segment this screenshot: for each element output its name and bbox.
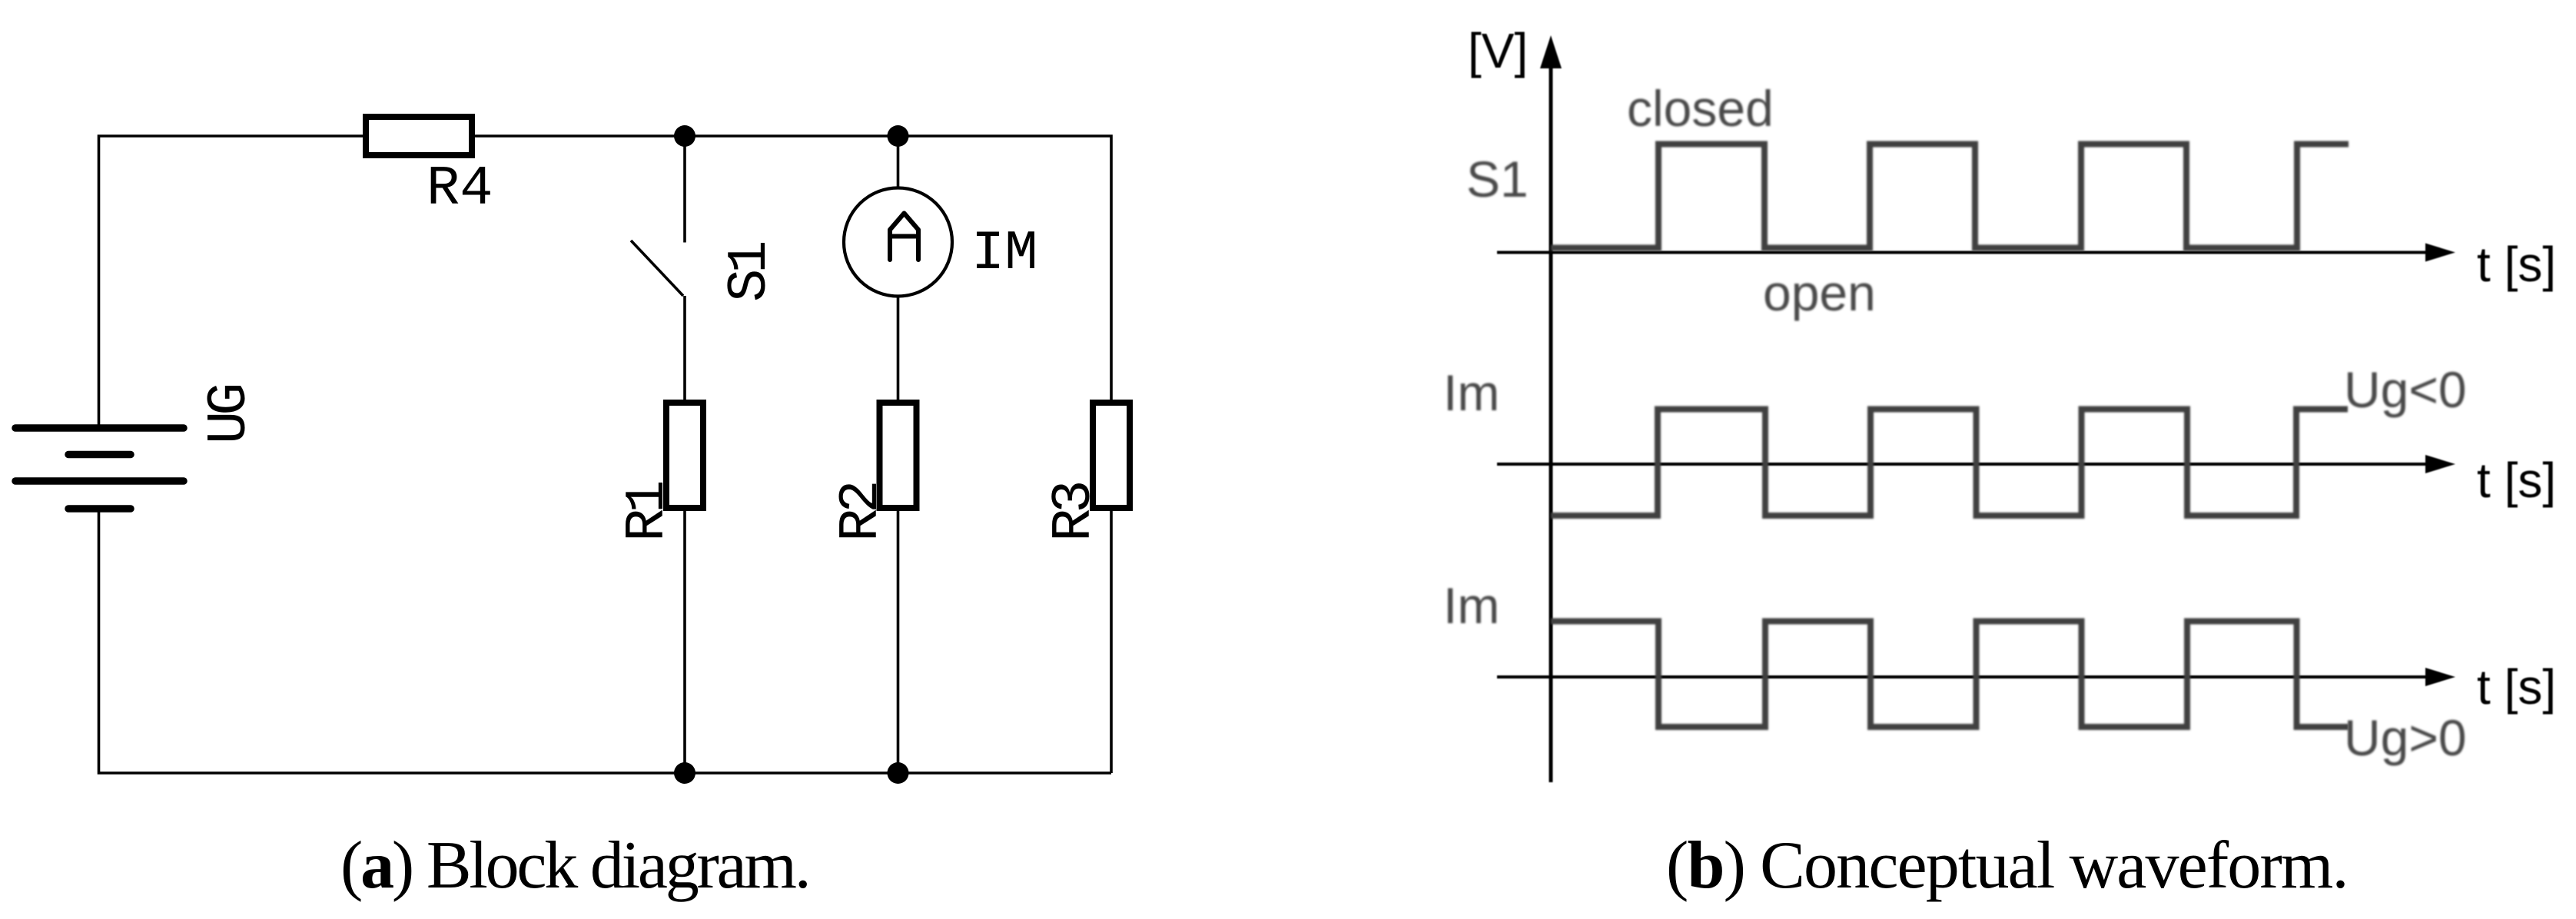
resistor R2 xyxy=(880,403,917,508)
resistor R1 xyxy=(666,403,703,508)
svg-text:Im: Im xyxy=(1443,577,1499,634)
wire: node B to ammeter top xyxy=(897,136,900,188)
waveform Im (Ug>0) xyxy=(1551,622,2349,728)
svg-text:Ug<0: Ug<0 xyxy=(2344,361,2467,418)
ammeter A glyph xyxy=(890,214,918,260)
ammeter U1 circle xyxy=(844,188,952,297)
wire: ammeter bottom to R2 top xyxy=(897,297,900,400)
svg-text:Im: Im xyxy=(1443,364,1499,421)
t axis row 3 xyxy=(1497,668,2455,686)
svg-text:R4: R4 xyxy=(427,158,493,221)
svg-text:t [s]: t [s] xyxy=(2477,237,2556,292)
svg-text:S1: S1 xyxy=(719,243,782,302)
wire: switch S1 top stub xyxy=(683,136,686,243)
node B (top) xyxy=(888,125,909,147)
t axis row 2 xyxy=(1497,455,2455,473)
resistor R3 xyxy=(1093,403,1130,508)
svg-text:Ug>0: Ug>0 xyxy=(2344,709,2467,766)
svg-text:(a) Block diagram.: (a) Block diagram. xyxy=(340,828,809,903)
wire: R4 right to node A xyxy=(475,134,685,138)
svg-text:R2: R2 xyxy=(830,483,893,542)
wire: R2 bottom to bottom rail xyxy=(897,511,900,773)
svg-text:R3: R3 xyxy=(1043,483,1106,542)
svg-text:open: open xyxy=(1763,264,1876,321)
resistor R4 xyxy=(366,117,472,155)
svg-text:t [s]: t [s] xyxy=(2477,453,2556,508)
node B2 (bottom) xyxy=(888,762,909,784)
waveform S1 row xyxy=(1551,144,2349,248)
node A2 (bottom) xyxy=(674,762,695,784)
svg-text:[V]: [V] xyxy=(1468,23,1528,78)
svg-text:t [s]: t [s] xyxy=(2477,659,2556,715)
node A (top) xyxy=(674,125,695,147)
wire: R1 bottom to bottom rail xyxy=(683,511,686,773)
svg-text:IM: IM xyxy=(971,222,1037,285)
wire: switch bottom to R1 top xyxy=(683,296,686,400)
battery UG xyxy=(15,428,184,509)
wire: R3 bottom to bottom rail xyxy=(1110,511,1113,773)
wire: battery bottom down and bottom rail xyxy=(99,509,1112,773)
V axis xyxy=(1540,35,1562,782)
t axis row 1 xyxy=(1497,244,2455,262)
svg-text:(b) Conceptual waveform.: (b) Conceptual waveform. xyxy=(1666,828,2348,903)
svg-text:S1: S1 xyxy=(1466,151,1529,207)
wire: node A to node B xyxy=(685,134,898,138)
wire top-left: battery to R4 xyxy=(99,136,363,427)
svg-text:R1: R1 xyxy=(616,483,679,542)
waveform Im (Ug<0) xyxy=(1551,410,2348,516)
switch S1 blade xyxy=(631,241,683,296)
svg-text:closed: closed xyxy=(1627,80,1774,137)
wire: node B to top-right corner and down to R3 xyxy=(898,136,1112,400)
svg-text:UG: UG xyxy=(198,386,261,444)
